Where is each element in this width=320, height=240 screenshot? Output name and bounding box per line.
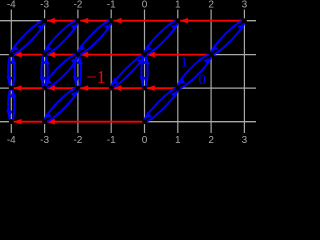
grid horizontal line row 3 <box>0 87 256 89</box>
blue 2-cycle loop (2,row2)<->(3,row1) <box>207 17 249 59</box>
node (-2,row1) <box>76 18 81 23</box>
grid vertical line x=-3 <box>44 10 46 134</box>
grid vertical line x=0 <box>144 10 146 134</box>
red arrowhead into node (1,row1) <box>180 18 188 24</box>
blue 2-cycle loop (0,row2)<->(1,row1) <box>140 17 182 59</box>
red arrowhead into node (-2,row3) <box>80 85 88 91</box>
red arrowhead into node (-1,row3) <box>113 85 121 91</box>
grid vertical line x=-1 <box>110 10 112 134</box>
blue 2-cycle loop (-4,row3)<->(-4,row4) <box>6 88 16 122</box>
grid vertical line x=3 <box>243 10 245 134</box>
grid horizontal line row 1 <box>0 20 256 22</box>
svg-text:−1: −1 <box>86 67 105 87</box>
red wire row 3 from -4 to 1 <box>11 87 178 89</box>
svg-text:2: 2 <box>208 135 214 143</box>
grid vertical line x=-2 <box>77 10 79 134</box>
svg-text:-4: -4 <box>7 135 16 143</box>
node (-3,row2) <box>42 52 47 57</box>
svg-text:-2: -2 <box>73 135 82 143</box>
svg-text:3: 3 <box>242 0 248 11</box>
node (1,row3) <box>175 86 180 91</box>
node (-4,row4) <box>9 119 14 124</box>
blue 2-cycle loop (-1,row3)<->(0,row2) <box>107 50 149 92</box>
blue 2-cycle loop (-3,row2)<->(-2,row1) <box>40 17 82 59</box>
blue 2-cycle loop (-4,row2)<->(-3,row1) <box>7 17 49 59</box>
red arrowhead into node (-2,row1) <box>80 18 88 24</box>
blue 2-cycle loop (-2,row2)<->(-1,row1) <box>74 17 116 59</box>
red arrowhead into node (-3,row3) <box>47 85 55 91</box>
node (-2,row2) <box>76 52 81 57</box>
red arrowhead into node (-4,row2) <box>13 52 21 58</box>
node (-2,row3) <box>76 86 81 91</box>
blue 2-cycle loop (-3,row3)<->(-2,row2) <box>40 50 82 92</box>
blue 2-cycle loop (-3,row2)<->(-3,row3) <box>39 55 49 88</box>
svg-text:2: 2 <box>208 0 214 11</box>
node (-1,row3) <box>109 86 114 91</box>
svg-text:0: 0 <box>199 72 207 88</box>
svg-text:0: 0 <box>142 135 148 143</box>
grid horizontal line row 2 <box>0 54 256 56</box>
node (-3,row3) <box>42 86 47 91</box>
blue 2-cycle loop (0,row4)<->(1,row3) <box>140 84 182 126</box>
red wire row 1 from -3 to 3 <box>45 20 245 22</box>
svg-text:1: 1 <box>175 0 181 11</box>
red arrowhead into node (-1,row1) <box>113 18 121 24</box>
node (1,row1) <box>175 18 180 23</box>
svg-text:0: 0 <box>142 0 148 11</box>
blue 2-cycle loop (1,row3)<->(2,row2) <box>174 50 216 92</box>
node (0,row4) <box>142 119 147 124</box>
red arrowhead into node (-4,row3) <box>13 85 21 91</box>
blue 2-cycle loop (-2,row2)<->(-2,row3) <box>73 55 83 88</box>
red arrowhead into node (-3,row1) <box>47 18 55 24</box>
svg-text:-3: -3 <box>40 135 49 143</box>
svg-text:1: 1 <box>175 135 181 143</box>
node (2,row2) <box>209 52 214 57</box>
red arrowhead into node (0,row3) <box>147 85 155 91</box>
blue 2-cycle loop (0,row2)<->(0,row3) <box>139 55 149 88</box>
svg-text:-1: -1 <box>107 135 116 143</box>
svg-text:-2: -2 <box>73 0 82 11</box>
grid vertical line x=1 <box>177 10 179 134</box>
red wire row 2 from -4 to 2 <box>11 54 211 56</box>
red arrowhead into node (-3,row2) <box>47 52 55 58</box>
grid vertical line x=-4 <box>10 10 12 134</box>
blue 2-cycle loop (-3,row4)<->(-2,row3) <box>40 84 82 126</box>
grid horizontal line row 4 <box>0 121 256 123</box>
grid vertical line x=2 <box>210 10 212 134</box>
red arrowhead into node (-4,row4) <box>13 119 21 125</box>
red wire row 4 from -4 to 0 <box>11 121 144 123</box>
node (3,row1) <box>242 18 247 23</box>
node (-4,row2) <box>9 52 14 57</box>
svg-text:-4: -4 <box>7 0 16 11</box>
node (0,row3) <box>142 86 147 91</box>
node (-3,row4) <box>42 119 47 124</box>
node (-1,row1) <box>109 18 114 23</box>
node (-4,row3) <box>9 86 14 91</box>
svg-text:-1: -1 <box>107 0 116 11</box>
red arrowhead into node (-2,row2) <box>80 52 88 58</box>
red arrowhead into node (0,row2) <box>147 52 155 58</box>
svg-text:-3: -3 <box>40 0 49 11</box>
node (0,row2) <box>142 52 147 57</box>
svg-text:1: 1 <box>180 55 188 71</box>
node (-3,row1) <box>42 18 47 23</box>
blue 2-cycle loop (-4,row2)<->(-4,row3) <box>6 55 16 88</box>
red arrowhead into node (-3,row4) <box>47 119 55 125</box>
svg-text:3: 3 <box>242 135 248 143</box>
